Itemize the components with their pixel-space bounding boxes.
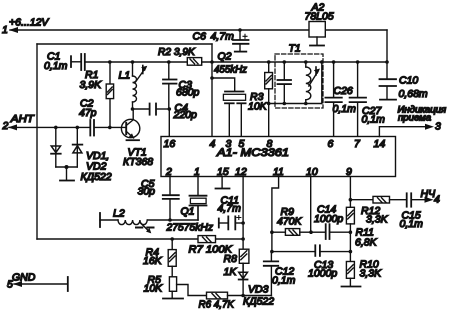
capacitor C12 bbox=[264, 252, 278, 296]
svg-text:КД522: КД522 bbox=[81, 171, 112, 183]
junction Q2 branch on pin4 line bbox=[210, 76, 214, 80]
junction R1 top on B+ rail bbox=[108, 60, 112, 64]
svg-text:4: 4 bbox=[210, 138, 216, 150]
svg-text:C6: C6 bbox=[193, 31, 207, 43]
node 5 GND terminal bbox=[13, 277, 68, 291]
regulator A2 78L05 bbox=[309, 22, 325, 46]
L1 tuning arrow bbox=[136, 66, 148, 83]
svg-text:3,3K: 3,3K bbox=[366, 214, 389, 226]
svg-text:3: 3 bbox=[226, 138, 232, 150]
capacitor C10 bbox=[380, 62, 397, 100]
diode VD2 bbox=[73, 127, 83, 167]
svg-text:220p: 220p bbox=[173, 109, 198, 121]
transistor VT1 bbox=[121, 109, 139, 140]
capacitor C3 bbox=[163, 62, 177, 109]
svg-text:КТ368: КТ368 bbox=[123, 156, 153, 168]
capacitor C5 bbox=[163, 177, 179, 221]
resistor R6 bbox=[207, 292, 272, 299]
junction T1 right leg on B+ rail bbox=[320, 60, 324, 64]
resistor R5 bbox=[163, 277, 183, 299]
svg-text:приема: приема bbox=[398, 113, 431, 124]
wire pin8 bbox=[268, 104, 270, 137]
svg-text:4,7m: 4,7m bbox=[218, 203, 242, 215]
resistor R2 bbox=[187, 58, 201, 66]
diode VD3 bbox=[239, 263, 248, 295]
svg-text:Q1: Q1 bbox=[181, 206, 195, 218]
T1 tuning arrow bbox=[309, 67, 320, 86]
shield box bottom rail bbox=[37, 238, 243, 240]
junction T1 cap top on B+ rail bbox=[283, 60, 287, 64]
crystal filter Q2 bbox=[212, 78, 246, 137]
svg-text:L1: L1 bbox=[119, 70, 131, 82]
svg-text:16K: 16K bbox=[143, 255, 163, 267]
L2 tuning arrow bbox=[136, 223, 154, 234]
svg-text:27575kHz: 27575kHz bbox=[166, 222, 214, 234]
junction C13 right R10 node bbox=[349, 250, 353, 254]
svg-text:10K: 10K bbox=[248, 101, 268, 113]
wire pin16 bbox=[168, 109, 170, 137]
svg-text:470K: 470K bbox=[277, 216, 303, 228]
resistor R8 bbox=[239, 239, 249, 272]
junction C11 on pin12 line bbox=[241, 221, 245, 225]
junction pin9 R12 node bbox=[349, 198, 353, 202]
resistor R7 bbox=[198, 236, 216, 243]
wire B+ rail y=62 bbox=[85, 61, 387, 63]
svg-text:455kHz: 455kHz bbox=[214, 64, 248, 76]
svg-text:R2 3,9K: R2 3,9K bbox=[158, 47, 196, 58]
svg-text:КД522: КД522 bbox=[243, 296, 274, 308]
ground stub pin15 bbox=[216, 177, 230, 189]
junction pin10 C14 node bbox=[309, 230, 313, 234]
svg-text:Q2: Q2 bbox=[218, 51, 232, 63]
junction C10 top on B+ rail bbox=[385, 60, 389, 64]
svg-text:6,8K: 6,8K bbox=[355, 237, 378, 249]
junction VD1 on ANT wire bbox=[54, 126, 58, 130]
svg-text:0,1m: 0,1m bbox=[333, 103, 357, 115]
junction L1 bottom collector bbox=[131, 107, 135, 111]
resistor R10 bbox=[342, 252, 361, 287]
svg-text:4: 4 bbox=[434, 194, 440, 206]
node 1 +6...12V terminal arrow bbox=[9, 27, 18, 33]
wire pin10 bbox=[310, 177, 312, 233]
svg-text:4,7m: 4,7m bbox=[211, 31, 235, 43]
shield box top edge bbox=[37, 43, 212, 45]
junction R11 bottom C14 node bbox=[349, 230, 353, 234]
junction R3 top on B+ rail bbox=[267, 60, 271, 64]
junction R3 bottom pin8 bbox=[267, 102, 271, 106]
wire pin9 row to R12 bbox=[350, 199, 373, 201]
svg-text:8: 8 bbox=[267, 138, 273, 150]
junction VD3 bottom on R6 wire bbox=[241, 294, 245, 298]
shield box left edge bbox=[36, 44, 38, 239]
capacitor C14 bbox=[311, 224, 350, 239]
svg-text:R6 4,7K: R6 4,7K bbox=[199, 299, 235, 311]
resistor R1 bbox=[106, 62, 113, 127]
junction C3 bottom pin16 bbox=[168, 107, 172, 111]
svg-text:12: 12 bbox=[235, 166, 247, 178]
svg-text:0,1m: 0,1m bbox=[44, 60, 68, 72]
svg-text:0,1m: 0,1m bbox=[272, 275, 296, 287]
capacitor C2 bbox=[90, 120, 94, 136]
wire T1 bottom bbox=[269, 103, 322, 105]
svg-text:30p: 30p bbox=[138, 186, 156, 198]
junction pin4 line on B+ rail bbox=[210, 60, 214, 64]
svg-text:1: 1 bbox=[2, 24, 8, 36]
node 2 ANT terminal arrow bbox=[8, 124, 89, 130]
capacitor C6 bbox=[233, 30, 249, 52]
capacitor T1 tank bbox=[278, 62, 292, 104]
svg-text:0,1m: 0,1m bbox=[400, 218, 424, 230]
wire T1 right leg bbox=[321, 62, 323, 104]
svg-text:680p: 680p bbox=[176, 87, 200, 99]
wire L2 to Q1 bbox=[197, 206, 199, 220]
svg-text:10K: 10K bbox=[144, 283, 164, 295]
wire +5V corner down to B+ rail bbox=[386, 30, 388, 62]
capacitor C13 bbox=[272, 245, 351, 256]
svg-text:2: 2 bbox=[2, 120, 9, 132]
svg-text:3,3K: 3,3K bbox=[360, 268, 383, 280]
junction T1 coil bottom bbox=[304, 102, 308, 106]
inductor T1 coil bbox=[306, 62, 311, 104]
junction C27 top on B+ rail bbox=[356, 60, 360, 64]
junction pin12 R8 on bottom rail bbox=[241, 237, 245, 241]
svg-text:1000p: 1000p bbox=[308, 268, 337, 280]
capacitor C15 bbox=[407, 193, 427, 206]
svg-text:T1: T1 bbox=[289, 43, 301, 55]
junction C12 top C13 left node bbox=[270, 250, 274, 254]
svg-text:VD3: VD3 bbox=[248, 284, 269, 296]
node 4 NCh output arrow bbox=[425, 197, 434, 203]
junction C5 bottom on L2 wire bbox=[168, 218, 172, 222]
svg-text:R8: R8 bbox=[224, 253, 238, 265]
svg-text:1K: 1K bbox=[224, 266, 238, 278]
wire C2 to base bbox=[95, 126, 126, 128]
svg-text:0,1m: 0,1m bbox=[362, 114, 386, 126]
resistor R11 bbox=[346, 200, 354, 252]
svg-text:3,9K: 3,9K bbox=[80, 79, 103, 91]
node 3 indicator arrow bbox=[425, 124, 434, 130]
svg-text:2: 2 bbox=[165, 166, 172, 178]
svg-text:14: 14 bbox=[374, 138, 386, 150]
svg-text:15: 15 bbox=[217, 166, 229, 178]
svg-text:16: 16 bbox=[164, 138, 176, 150]
svg-text:47p: 47p bbox=[79, 107, 97, 119]
junction VD2 on ANT wire bbox=[76, 126, 80, 130]
svg-text:6: 6 bbox=[328, 138, 334, 150]
IC A1 MC3361 box bbox=[161, 137, 396, 177]
svg-text:АНТ: АНТ bbox=[10, 113, 36, 125]
svg-text:0,68m: 0,68m bbox=[399, 88, 428, 100]
svg-text:C10: C10 bbox=[399, 75, 418, 87]
svg-text:1: 1 bbox=[194, 166, 200, 178]
wire R5 tap to R6 bbox=[177, 285, 207, 296]
svg-text:+6...12V: +6...12V bbox=[9, 17, 49, 29]
wire VD1-VD2 common bbox=[56, 166, 78, 168]
wire pin4 vertical bbox=[211, 44, 213, 137]
junction R4 top on bottom rail bbox=[170, 237, 174, 241]
junction C26 top on B+ rail bbox=[332, 60, 336, 64]
junction R9 left node bbox=[270, 230, 274, 234]
capacitor C26 bbox=[325, 62, 341, 137]
inductor L1 bbox=[133, 62, 137, 109]
svg-text:C26: C26 bbox=[334, 85, 353, 97]
svg-text:GND: GND bbox=[12, 272, 36, 284]
svg-text:3: 3 bbox=[435, 121, 441, 133]
wire pin14 to indicator bbox=[379, 127, 427, 137]
capacitor C27 bbox=[350, 62, 366, 137]
ground stub VD1 VD2 bbox=[60, 167, 74, 181]
resistor R9 bbox=[272, 229, 311, 236]
resistor R4 bbox=[168, 239, 176, 277]
svg-text:5: 5 bbox=[239, 138, 245, 150]
wire pin11 jog bbox=[272, 177, 279, 252]
crystal Q1 bbox=[190, 177, 207, 221]
svg-text:10: 10 bbox=[306, 166, 318, 178]
svg-text:L2: L2 bbox=[113, 208, 125, 220]
junction VD common bbox=[65, 165, 69, 169]
wire pin9 bbox=[349, 177, 351, 200]
junction T1 coil top on B+ rail bbox=[304, 60, 308, 64]
resistor R3 bbox=[265, 62, 273, 104]
capacitor C1 bbox=[71, 54, 85, 70]
junction C3 top on B+ rail bbox=[167, 60, 171, 64]
capacitor C11 bbox=[219, 216, 243, 230]
junction R1 bottom base bbox=[108, 126, 112, 130]
wire +V top rail bbox=[10, 29, 387, 31]
capacitor C4 bbox=[133, 104, 170, 115]
junction C6 on +V rail bbox=[238, 28, 242, 32]
inductor L2 bbox=[100, 213, 198, 227]
svg-text:78L05: 78L05 bbox=[305, 11, 334, 23]
resistor R12 bbox=[373, 196, 406, 203]
transformer T1 dashed box bbox=[275, 54, 323, 108]
junction L1 top on B+ rail bbox=[131, 60, 135, 64]
junction T1 cap bottom bbox=[283, 102, 287, 106]
svg-text:5: 5 bbox=[7, 279, 13, 291]
wire pin12 column bbox=[242, 177, 244, 240]
svg-text:1000p: 1000p bbox=[314, 213, 343, 225]
diode VD1 bbox=[51, 127, 61, 167]
